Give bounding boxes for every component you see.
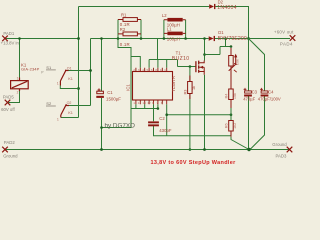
svg-text:1500µF: 1500µF <box>106 97 121 102</box>
node trimpot top <box>230 45 233 48</box>
resistor R3 <box>188 82 193 94</box>
relay contact S2 <box>61 104 69 117</box>
svg-text:470µF: 470µF <box>243 96 255 101</box>
svg-text:O1: O1 <box>67 66 72 70</box>
svg-text:R2: R2 <box>120 27 126 32</box>
inductor L2 <box>167 18 182 22</box>
R6 leads <box>230 131 232 137</box>
svg-text:D1: D1 <box>218 30 224 35</box>
R3 leads <box>189 76 191 100</box>
op-amp IC1 TL497A box <box>133 72 173 101</box>
wire R1 stubs horizontal <box>118 20 141 34</box>
pad PAD2 <box>2 147 8 153</box>
wire R3 top <box>189 67 191 82</box>
svg-text:1N4004: 1N4004 <box>217 5 236 11</box>
wire T1 drain vertical <box>204 39 206 61</box>
node R left junction <box>117 37 120 40</box>
svg-text:by DG7XO: by DG7XO <box>105 123 136 130</box>
svg-text:1: 1 <box>17 77 19 81</box>
wire R1 right riser <box>140 20 142 39</box>
svg-text:6: 6 <box>151 68 153 72</box>
node R3 ground <box>189 148 192 151</box>
svg-text:1k2: 1k2 <box>233 123 237 129</box>
node bottom bus junction <box>157 107 160 110</box>
resistor R6 <box>229 121 234 132</box>
svg-text:13,8V to 60V StepUp Wandler: 13,8V to 60V StepUp Wandler <box>151 160 237 166</box>
relay contact S1 <box>60 70 68 86</box>
wire S1 common horizontal <box>60 86 78 89</box>
wire feedback line <box>167 104 231 135</box>
svg-text:S2: S2 <box>46 101 52 106</box>
transistor T1 <box>196 61 199 73</box>
svg-text:PAD1: PAD1 <box>3 31 15 36</box>
svg-text:R4: R4 <box>224 94 228 99</box>
wire Vcc staircase to IC <box>102 39 141 128</box>
resistor R4 <box>229 89 234 100</box>
wire output line to PAD4 <box>215 38 290 40</box>
svg-text:BYV79E200: BYV79E200 <box>218 36 247 42</box>
node R3 gate junction <box>189 65 192 68</box>
svg-text:S1: S1 <box>46 65 52 70</box>
svg-text:1k: 1k <box>192 86 196 90</box>
svg-text:11: 11 <box>164 68 167 72</box>
svg-text:8: 8 <box>155 68 157 72</box>
R4 leads <box>230 100 232 109</box>
svg-text:K1: K1 <box>68 77 73 81</box>
svg-text:0.1R: 0.1R <box>120 42 130 47</box>
svg-text:4: 4 <box>142 68 144 72</box>
node S1 NO junction <box>89 69 92 72</box>
node C1 tap <box>100 37 103 40</box>
svg-text:GIA-234P: GIA-234P <box>21 67 40 72</box>
wire C1 drop <box>101 39 103 150</box>
svg-text:1: 1 <box>57 118 59 122</box>
node L right junction <box>184 37 187 40</box>
wire C2 riser <box>154 104 232 135</box>
svg-text:Ground: Ground <box>272 142 287 147</box>
resistor R2 <box>123 32 137 36</box>
svg-text:PAD2: PAD2 <box>4 140 16 145</box>
node coil tap junction <box>18 37 21 40</box>
IC1 bottom pin stubs <box>136 100 167 104</box>
pad PAD5 <box>5 100 11 106</box>
node T1 drain tap <box>203 37 206 40</box>
IC1 top pin stubs <box>136 68 167 72</box>
svg-text:10k: 10k <box>235 59 239 65</box>
svg-text:100µH: 100µH <box>167 36 180 41</box>
relay coil K1 <box>11 78 29 92</box>
wire top rail to D2 <box>79 6 210 8</box>
diode D2 <box>209 4 215 9</box>
svg-text:13: 13 <box>142 101 146 105</box>
svg-text:12: 12 <box>147 101 151 105</box>
svg-text:C4: C4 <box>268 89 274 94</box>
IC1 bottom pin numbers <box>133 101 163 105</box>
wire S2 P stub <box>46 105 56 107</box>
svg-text:R6: R6 <box>224 123 228 128</box>
svg-text:IC1: IC1 <box>126 84 131 91</box>
svg-text:3: 3 <box>138 68 140 72</box>
wire IC top bus <box>149 39 177 68</box>
svg-text:TL497A: TL497A <box>171 76 176 92</box>
wire switched rail to R2 <box>91 38 209 40</box>
svg-text:BUZ10: BUZ10 <box>172 56 190 62</box>
svg-text:D2: D2 <box>218 0 224 5</box>
node T1 source ground <box>203 148 206 151</box>
svg-text:1: 1 <box>133 101 135 105</box>
pad PAD1 <box>2 36 8 42</box>
node drain sense tap <box>203 53 206 56</box>
svg-text:R1: R1 <box>121 12 127 17</box>
wire C4 branch diagonal <box>249 39 265 150</box>
wire S1 P stub <box>46 69 56 71</box>
node output cap ground <box>247 148 250 151</box>
svg-text:470µF/100V: 470µF/100V <box>258 96 281 101</box>
node input rail junction <box>77 37 80 40</box>
svg-text:O2: O2 <box>67 101 72 105</box>
wire ground rail <box>5 149 289 151</box>
svg-text:6: 6 <box>161 101 163 105</box>
wire L2 right riser <box>164 20 186 34</box>
svg-text:60V off: 60V off <box>1 107 15 112</box>
svg-text:R3: R3 <box>183 90 187 95</box>
capacitor C1 <box>96 88 104 98</box>
wire R6 top green <box>230 108 232 121</box>
svg-text:Ground: Ground <box>3 153 18 158</box>
node C1 ground <box>100 148 103 151</box>
node feedback divider junction <box>230 113 233 116</box>
pad PAD3 <box>287 147 293 153</box>
svg-text:7: 7 <box>156 101 158 105</box>
diode D1 <box>209 36 215 41</box>
capacitor C4 <box>260 88 268 97</box>
svg-text:+13.8V in: +13.8V in <box>1 41 20 46</box>
node L left junction <box>163 37 166 40</box>
node S1 common junction <box>77 87 80 90</box>
capacitor C2 <box>148 121 159 126</box>
wire relay coil drop <box>19 39 21 78</box>
trimpot R5 leads <box>230 48 232 89</box>
svg-text:PAD4: PAD4 <box>280 42 293 47</box>
wire output stub to divider <box>225 39 227 47</box>
trimpot R5 wiper arrow <box>229 56 236 70</box>
svg-text:C3: C3 <box>252 89 258 94</box>
svg-text:430pF: 430pF <box>159 128 172 133</box>
wire D2 return drop <box>215 7 248 39</box>
svg-text:+60V out: +60V out <box>274 29 294 34</box>
transistor T1 arrow <box>200 66 203 69</box>
svg-text:K1: K1 <box>68 111 73 115</box>
trimpot R5 <box>229 56 234 67</box>
wire R1 left riser <box>117 20 119 39</box>
IC1 top pin numbers <box>133 68 167 72</box>
svg-text:2: 2 <box>133 68 135 72</box>
node output stub <box>224 37 227 40</box>
svg-text:P: P <box>41 70 44 74</box>
wire S2 NO contact horizontal <box>69 105 91 107</box>
svg-text:15k: 15k <box>233 93 237 99</box>
svg-text:14: 14 <box>138 101 142 105</box>
svg-text:PAD5: PAD5 <box>3 95 15 100</box>
wire T1 source to ground <box>204 75 206 150</box>
wire L2 left riser <box>164 20 186 39</box>
wire R6 bottom to ground <box>231 137 249 150</box>
resistor R1 <box>123 18 137 22</box>
svg-text:2: 2 <box>17 90 19 94</box>
svg-text:C1: C1 <box>107 90 113 95</box>
node R right junction <box>140 37 143 40</box>
node C1 bottom tie <box>100 126 103 129</box>
svg-text:9: 9 <box>152 101 154 105</box>
svg-text:PAD3: PAD3 <box>276 154 288 159</box>
wire IC bottom bus <box>131 104 158 108</box>
svg-text:C2: C2 <box>159 116 165 121</box>
wire C3 drop <box>248 39 250 150</box>
svg-text:L2: L2 <box>162 13 167 18</box>
wire S2 common horizontal <box>61 117 79 119</box>
svg-text:L1: L1 <box>167 27 172 32</box>
svg-text:5: 5 <box>147 68 149 72</box>
wire coil to PAD5 <box>8 91 20 103</box>
wire T1 gate line <box>178 66 196 68</box>
pad PAD4 <box>290 35 296 41</box>
wire vertical input net x=78.4 <box>78 7 80 118</box>
svg-text:T1: T1 <box>176 50 182 55</box>
svg-text:1: 1 <box>57 82 59 86</box>
inductor L1 <box>167 32 182 36</box>
wire drain jog to divider <box>205 47 232 55</box>
wire switched net vertical x=90.4 <box>90 39 92 106</box>
wire +13.8V rail from PAD1 <box>5 38 79 40</box>
capacitor C3 <box>244 88 252 97</box>
svg-text:10: 10 <box>160 68 164 72</box>
node output junction <box>247 37 250 40</box>
wire S1 NO contact horizontal <box>69 70 91 72</box>
wire R3 bottom drop <box>189 94 191 150</box>
